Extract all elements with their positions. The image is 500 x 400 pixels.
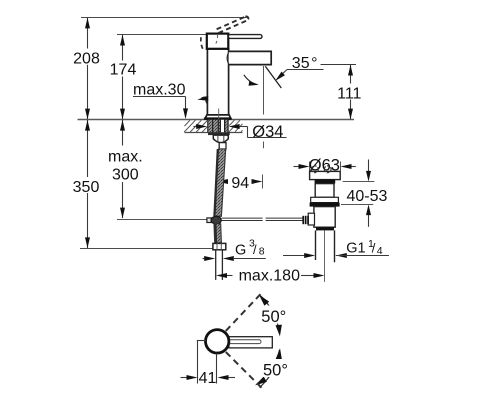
- cartridge head block: [207, 34, 229, 49]
- svg-text:350: 350: [73, 179, 100, 196]
- drain washer: [311, 197, 339, 202]
- 41 left extension line: [197, 341, 199, 384]
- arc arrowhead upper: [257, 293, 270, 306]
- svg-text:174: 174: [110, 62, 137, 79]
- reference line 174 (head top level): [117, 34, 207, 36]
- pop-up rod horizontal: [222, 218, 303, 220]
- arrow 208 top: [85, 18, 90, 29]
- tee junction ball: [211, 216, 221, 224]
- arc arrowhead at lever bottom edge: [276, 348, 284, 360]
- base bottom edge: [204, 118, 232, 120]
- spout fillet: [227, 53, 229, 64]
- 35° leader diagonal: [278, 70, 288, 79]
- svg-text:94: 94: [231, 175, 249, 192]
- short tube below nut: [219, 143, 226, 149]
- max300 bottom reference line / pop-up rod left part: [117, 219, 207, 221]
- swing arc upper: [260, 295, 280, 333]
- lever handle horizontal: [228, 35, 262, 39]
- dimension 40-53: [368, 160, 370, 227]
- svg-text:50°: 50°: [261, 308, 286, 326]
- lever handle raised (dashed): [217, 16, 249, 33]
- arrow 208 bottom: [85, 109, 90, 120]
- spout outlet centerline: [263, 66, 264, 189]
- drain lower gasket: [316, 227, 334, 230]
- svg-text:8: 8: [259, 245, 265, 257]
- threaded shank through deck: [208, 120, 229, 132]
- drain body: [314, 207, 335, 228]
- drain neck: [315, 184, 334, 198]
- washer under deck: [208, 132, 230, 135]
- svg-text:G1: G1: [346, 240, 365, 256]
- 35° underline: [287, 69, 324, 71]
- dimension 111 top line: [321, 64, 357, 66]
- label 50° upper: [259, 306, 291, 324]
- arrow 111 bottom: [348, 109, 353, 120]
- drain inlet block: [308, 213, 314, 225]
- drain centerline: [324, 230, 326, 282]
- mounting nut: [213, 135, 228, 143]
- lever top view rectangle: [229, 337, 272, 348]
- svg-text:41: 41: [199, 370, 217, 387]
- swing arc lower: [260, 350, 280, 388]
- 41 center extension line: [216, 354, 218, 384]
- deck hatching left: [184, 120, 207, 132]
- G3/8 dim line / label underline: [234, 258, 266, 260]
- svg-text:max.180: max.180: [239, 267, 300, 284]
- dimension 208 vertical line: [87, 18, 89, 120]
- spout swing arc: [244, 75, 257, 85]
- drain gasket bottom: [310, 203, 340, 207]
- drain tailpipe: [316, 230, 335, 262]
- dimension 40-53 extension lines: [341, 182, 374, 205]
- svg-text:G: G: [235, 243, 246, 259]
- arrow 350 bottom: [85, 237, 90, 248]
- deck hatching right: [229, 120, 243, 132]
- body circle top view: [206, 330, 229, 353]
- dimension G3/8 arrows: [203, 258, 206, 260]
- Ø34 leader: [240, 127, 287, 138]
- G3/8 connector nut: [213, 243, 226, 249]
- drain gasket top: [315, 180, 336, 184]
- dimension G1 1/4 right arrow + underline: [336, 253, 347, 258]
- dimension 350 vertical line: [87, 120, 89, 248]
- arrow 111 top: [348, 65, 353, 76]
- arc arrowhead lower: [253, 377, 266, 388]
- supply tube G3/8 tail: [216, 250, 223, 280]
- dimension 94: [217, 179, 228, 184]
- lever swing dashed arc (back): [201, 37, 204, 51]
- faucet centerline: [218, 109, 220, 134]
- arrow max300 top: [120, 120, 125, 131]
- svg-text:Ø34: Ø34: [252, 123, 283, 141]
- svg-text:300: 300: [112, 167, 139, 184]
- arc arrowhead at lever top edge: [276, 325, 284, 337]
- spout swing arc arrowhead: [249, 81, 260, 87]
- arrow max300 bottom: [120, 208, 125, 219]
- dimension 41: [181, 377, 188, 379]
- dimension max.300 vertical line: [122, 120, 124, 218]
- 350 bottom reference line: [80, 248, 213, 250]
- reference line top (lever raised tip level): [81, 17, 248, 19]
- svg-text:40-53: 40-53: [347, 188, 388, 205]
- dimension Ø34 left arrow: [194, 126, 199, 128]
- svg-text:208: 208: [73, 51, 100, 68]
- drain pop-up knob circles: [312, 166, 319, 173]
- supply hose lower (braided): [214, 224, 221, 243]
- arrow 174 top: [120, 35, 125, 46]
- rod coupler ridges: [302, 216, 309, 224]
- dashed lever position upper: [226, 294, 261, 331]
- label 50° lower: [261, 359, 293, 377]
- hidden dash inside head: [216, 35, 218, 44]
- faucet body column: [207, 49, 228, 115]
- svg-text:50°: 50°: [263, 361, 288, 379]
- svg-text:max.30: max.30: [133, 81, 186, 98]
- spout: [229, 51, 272, 64]
- lever slot: [228, 340, 261, 344]
- faucet base: [205, 115, 231, 118]
- max.30 leader underline: [133, 96, 186, 98]
- svg-text:/: /: [372, 241, 376, 256]
- dimension 174 vertical line: [122, 35, 124, 120]
- supply hose upper (braided): [215, 149, 226, 216]
- arrow max.30 down: [183, 108, 188, 119]
- Ø63 extension lines: [310, 162, 341, 172]
- dimension Ø34 right arrow: [229, 124, 240, 129]
- arrow 174 bottom: [120, 109, 125, 120]
- svg-text:max.: max.: [108, 149, 143, 166]
- spout angle diagonal line: [265, 66, 281, 88]
- deck bottom line: [185, 132, 243, 134]
- svg-text:4: 4: [377, 245, 383, 257]
- dimension max.180: [216, 273, 227, 278]
- dimension 111 vertical line: [350, 65, 352, 120]
- drain flange rim: [310, 171, 341, 179]
- rotation arrow at body left: [202, 97, 209, 98]
- svg-text:111: 111: [337, 86, 361, 103]
- dashed lever position lower: [226, 352, 262, 388]
- svg-text:/: /: [253, 242, 257, 257]
- dimension Ø63: [294, 166, 300, 168]
- deck top line: [78, 119, 355, 121]
- dimension G1 1/4 left arrow: [283, 255, 306, 257]
- max.30 leader vertical: [185, 97, 187, 110]
- 41 leader from circle: [197, 340, 206, 342]
- 35° leader arrowhead: [273, 72, 284, 83]
- arrow 350 top: [85, 120, 90, 131]
- tee junction stub: [207, 218, 211, 223]
